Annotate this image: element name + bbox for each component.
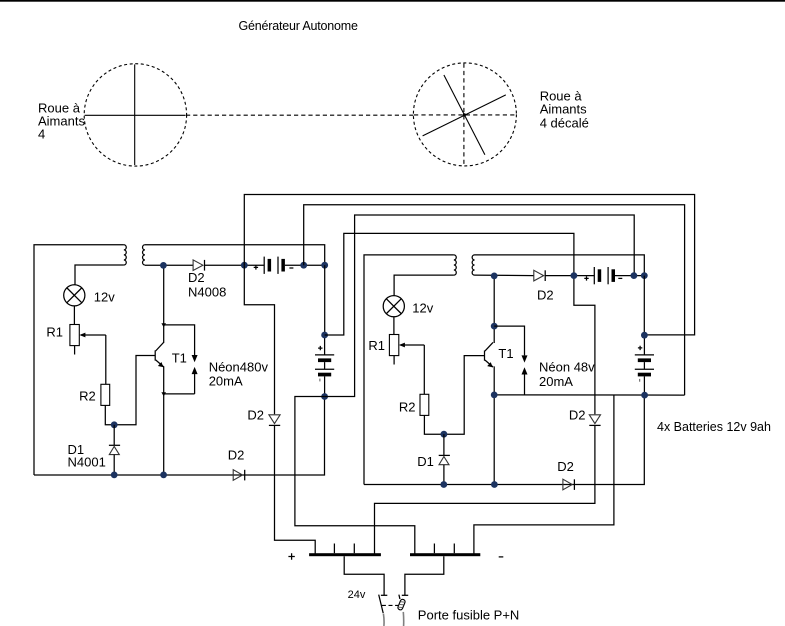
wheel 1 (Roue à Aimants 4) — [84, 64, 186, 166]
diode D1 right — [439, 434, 450, 484]
svg-text:Porte fusible P+N: Porte fusible P+N — [418, 608, 520, 623]
diode D2 (bottom left) — [233, 470, 245, 481]
R1 right bottom stub — [393, 356, 395, 365]
svg-text:24v: 24v — [348, 589, 366, 601]
svg-text:12v: 12v — [94, 290, 115, 305]
diode D2 (down, right) — [589, 415, 600, 426]
node T2 top branch dot — [491, 323, 498, 330]
wire neon top branch — [164, 325, 195, 355]
junction mark bottom branch — [161, 392, 166, 396]
diode D2 (down, left) — [269, 415, 280, 426]
diode D2 N4008 — [193, 260, 204, 271]
fuse F1 lead — [382, 614, 385, 626]
label bank2 plus — [638, 346, 642, 350]
wire T1 emitter vertical — [163, 366, 165, 475]
node T2 bottom branch dot — [491, 392, 498, 399]
wire R2 to node B — [424, 356, 484, 435]
neon NE1 arrows — [192, 355, 198, 394]
transformer TR1 secondary winding — [143, 245, 145, 265]
transistor Q1 (T1) — [155, 342, 164, 367]
wire secondary1 top run — [145, 245, 325, 265]
wire neon bottom branch — [164, 393, 195, 395]
node dot12 — [631, 272, 638, 279]
node D1-bottom dot — [111, 472, 118, 479]
wire wiper to R2 — [105, 335, 107, 384]
wire primary1 bottom to lamp — [75, 265, 124, 285]
fuse holder F2 cap — [402, 594, 408, 596]
svg-text:12v: 12v — [412, 301, 433, 316]
wire bank1 top feed — [324, 265, 326, 335]
wire battery2 column — [643, 276, 645, 336]
stub terminal 2 — [353, 544, 355, 554]
wire secondary2 top run — [475, 255, 645, 276]
wire plus bar to fuse 1 — [344, 556, 384, 595]
label B1 plus — [254, 265, 258, 269]
svg-text:20mA: 20mA — [209, 374, 243, 389]
node T1-bottom dot — [160, 472, 167, 479]
transistor Q2 (T1) — [485, 342, 494, 367]
linkage dashed — [382, 604, 398, 606]
node B dot — [441, 431, 448, 438]
junction mark top branch — [161, 323, 166, 327]
node secondary1 dot — [160, 262, 167, 269]
svg-text:T1: T1 — [498, 346, 513, 361]
label bank1 minus tick — [319, 379, 321, 382]
wire D2 to battery B1 — [205, 264, 265, 266]
svg-text:D2: D2 — [247, 408, 264, 423]
battery B2 (horizontal) — [594, 267, 615, 284]
diode D2 (bottom right) — [563, 479, 575, 490]
svg-text:Aimants: Aimants — [540, 102, 587, 117]
wire R2 to node A — [105, 356, 155, 425]
wire B2 to node row — [615, 275, 644, 277]
svg-text:D1: D1 — [417, 454, 434, 469]
transformer TR2 secondary winding — [472, 255, 474, 275]
wire D2 to battery B2 — [545, 275, 594, 277]
wire neon2 top branch — [494, 326, 524, 355]
wire dot11 to D2v right — [574, 276, 595, 415]
label B2 minus — [618, 277, 622, 279]
node bank1 bottom dot — [321, 393, 328, 400]
wheel 2 (Roue à Aimants 4 décalé) — [413, 63, 516, 166]
node bank2 top dot — [641, 332, 648, 339]
wire lamp2 to R1 — [393, 317, 395, 335]
R1 right wiper arrow — [399, 343, 424, 348]
wire B1 to node row — [285, 264, 325, 266]
wire wiper2 to R2 — [423, 345, 425, 394]
fuse F2 lead — [402, 612, 404, 626]
wire primary2 bottom to lamp — [394, 275, 454, 296]
stub terminal 1 — [333, 544, 335, 554]
transformer TR1 primary winding — [124, 245, 126, 265]
wire T2 collector vertical — [493, 276, 495, 343]
node secondary2 dot — [491, 273, 498, 280]
node dot1 — [241, 262, 248, 269]
svg-text:D2: D2 — [569, 408, 586, 423]
resistor R2 right — [420, 394, 429, 415]
shaft dashed line — [186, 114, 414, 116]
svg-text:4x Batteries 12v 9ah: 4x Batteries 12v 9ah — [657, 420, 771, 434]
wire D2v to plus bar — [275, 425, 316, 554]
fuse holder F1 cap — [381, 594, 387, 596]
wire secondary2 bottom to D2 — [475, 274, 534, 277]
wire loop1 dot1 to battery2 column — [244, 195, 694, 335]
svg-text:4 décalé: 4 décalé — [540, 116, 589, 131]
svg-text:D2: D2 — [228, 447, 245, 462]
node bank2 bottom dot — [641, 392, 648, 399]
svg-text:N4001: N4001 — [68, 455, 106, 470]
label bank2 minus tick — [639, 379, 641, 382]
wire minus bar to fuse 2 — [405, 556, 444, 595]
label B1 minus — [289, 267, 293, 269]
wire bank1 top to loop4 — [325, 233, 574, 335]
battery bank2 (4x12v) — [635, 335, 654, 395]
svg-text:Néon 48v: Néon 48v — [539, 360, 595, 375]
wire bank1 bottom to loop3 — [325, 215, 635, 397]
node D1-bottom right dot — [440, 481, 447, 488]
transformer TR2 primary winding — [454, 255, 456, 275]
resistor R1 (potentiometer) — [70, 325, 79, 346]
wire loop2 dot2 to right battery bottom — [304, 205, 685, 395]
svg-text:20mA: 20mA — [539, 374, 573, 389]
svg-text:R1: R1 — [46, 325, 63, 340]
diode D2 right block — [534, 270, 545, 281]
fuse F2 cartridge — [397, 599, 405, 611]
lamp L1 12v — [64, 285, 85, 306]
svg-text:R2: R2 — [79, 389, 96, 404]
battery B1 (horizontal) — [264, 257, 285, 274]
svg-text:D2: D2 — [557, 459, 574, 474]
node bank1 top dot — [321, 332, 328, 339]
svg-text:R2: R2 — [399, 400, 416, 415]
wire bank1 bottom to minus bar — [295, 397, 415, 555]
svg-text:D2: D2 — [537, 288, 554, 303]
wire to minus bar right — [474, 395, 614, 554]
neon NE2 arrows — [522, 355, 528, 395]
svg-text:Néon480v: Néon480v — [209, 360, 269, 375]
svg-text:D2: D2 — [188, 270, 205, 285]
resistor R1 right — [389, 335, 398, 356]
wire T2 emitter vertical — [493, 366, 495, 484]
R1 wiper arrow — [79, 333, 105, 338]
stub terminal 3 — [433, 544, 435, 554]
wire dot1 down to D2v branch — [244, 265, 274, 414]
svg-text:Générateur Autonome: Générateur Autonome — [239, 19, 358, 33]
svg-text:T1: T1 — [172, 350, 187, 365]
wire primary2 top — [364, 255, 454, 485]
wire bottom bus block1 — [34, 397, 325, 476]
node dot2 — [300, 262, 307, 269]
fuse holder F1 blade — [379, 595, 384, 614]
wire primary1 top — [34, 245, 124, 475]
svg-text:N4008: N4008 — [188, 285, 226, 300]
node dot11 — [571, 272, 578, 279]
R1 bottom stub — [74, 346, 76, 355]
node A dot — [111, 421, 118, 428]
battery bank1 (4x12v) — [315, 335, 334, 397]
fuse holder F2 link — [399, 595, 400, 599]
wire secondary1 bottom to D2 — [145, 264, 193, 266]
svg-text:4: 4 — [38, 127, 45, 142]
wire bottom bus block2 — [364, 395, 644, 484]
node dot13 — [641, 272, 648, 279]
diode D1 N4001 — [109, 425, 120, 475]
label plus bar — [288, 553, 294, 559]
minus bus bar — [410, 553, 480, 556]
wire bottom D2 left branch — [232, 474, 234, 476]
top border line — [0, 0, 785, 2]
label bank1 plus — [318, 346, 322, 350]
wire D2v right to plus bar — [375, 425, 595, 554]
wire emitter row to battery2 bottom — [494, 394, 684, 396]
lamp L2 12v — [383, 296, 404, 317]
node T2 bottom dot — [491, 481, 498, 488]
label B2 plus — [584, 276, 588, 280]
stub terminal 4 — [453, 544, 455, 554]
plus bus bar — [309, 553, 381, 556]
wire T1 collector vertical — [163, 265, 165, 343]
node dot3 — [321, 262, 328, 269]
resistor R2 — [101, 384, 110, 405]
wire lamp to R1 — [73, 306, 75, 325]
label minus bar — [499, 556, 504, 558]
svg-text:R1: R1 — [368, 338, 385, 353]
